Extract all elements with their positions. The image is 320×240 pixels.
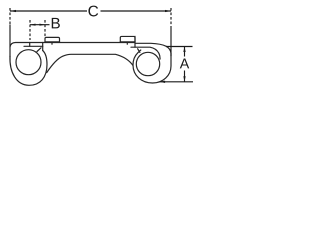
B arrow right — [40, 24, 46, 26]
C extension left dashed — [9, 8, 11, 25]
right knob stem — [126, 42, 128, 44]
C extension right solid part — [170, 26, 172, 56]
B extension dashed lines — [29, 20, 31, 40]
left eye channel notch — [37, 48, 41, 52]
right neck bottom / inner channel — [131, 47, 160, 59]
A dimension line — [184, 47, 186, 57]
far rail left — [24, 45, 43, 47]
C dimension line — [10, 10, 87, 12]
letter B — [52, 18, 60, 28]
B dimension line — [30, 24, 50, 26]
right neck top — [135, 43, 171, 56]
letter A — [180, 59, 189, 69]
body bottom rail — [47, 54, 133, 72]
A extension top — [166, 46, 193, 48]
C dimension line right segment — [101, 10, 172, 12]
left eye outer arc — [10, 51, 47, 86]
left knob base line — [45, 41, 60, 43]
right hook outer — [133, 50, 171, 83]
top edge / body top line — [10, 43, 135, 48]
left knob — [45, 37, 60, 42]
bolt front right — [134, 36, 136, 47]
A extension bottom — [160, 81, 193, 83]
B arrow left — [30, 24, 36, 26]
left eye inner circle — [16, 50, 41, 75]
right eye inner circle — [136, 52, 159, 75]
A bottom-left arrow — [160, 81, 166, 83]
left knob stem — [51, 42, 53, 44]
C extension right dashed — [170, 8, 172, 26]
right knob — [120, 36, 135, 42]
A arrow down — [183, 76, 185, 82]
spine left vertical — [9, 25, 11, 57]
A dimension line lower segment — [184, 71, 186, 82]
A arrow up — [183, 47, 185, 53]
right eye channel notch — [138, 49, 140, 53]
C arrow left — [10, 10, 16, 12]
bolt front left — [42, 43, 44, 51]
letter C — [88, 6, 98, 17]
right knob base line — [120, 41, 135, 43]
hook tip face left — [29, 43, 31, 47]
C arrow right — [165, 10, 171, 12]
